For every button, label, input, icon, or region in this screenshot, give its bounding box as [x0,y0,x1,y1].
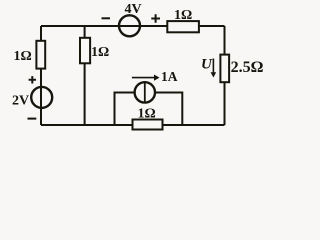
svg-text:1Ω: 1Ω [174,8,192,23]
svg-text:U: U [201,57,213,73]
svg-text:1A: 1A [161,69,178,84]
svg-text:2V: 2V [12,94,29,109]
svg-text:1Ω: 1Ω [14,49,32,64]
svg-text:4V: 4V [125,2,142,17]
svg-text:1Ω: 1Ω [91,45,109,60]
svg-text:2.5Ω: 2.5Ω [231,59,264,76]
svg-text:1Ω: 1Ω [138,107,156,122]
